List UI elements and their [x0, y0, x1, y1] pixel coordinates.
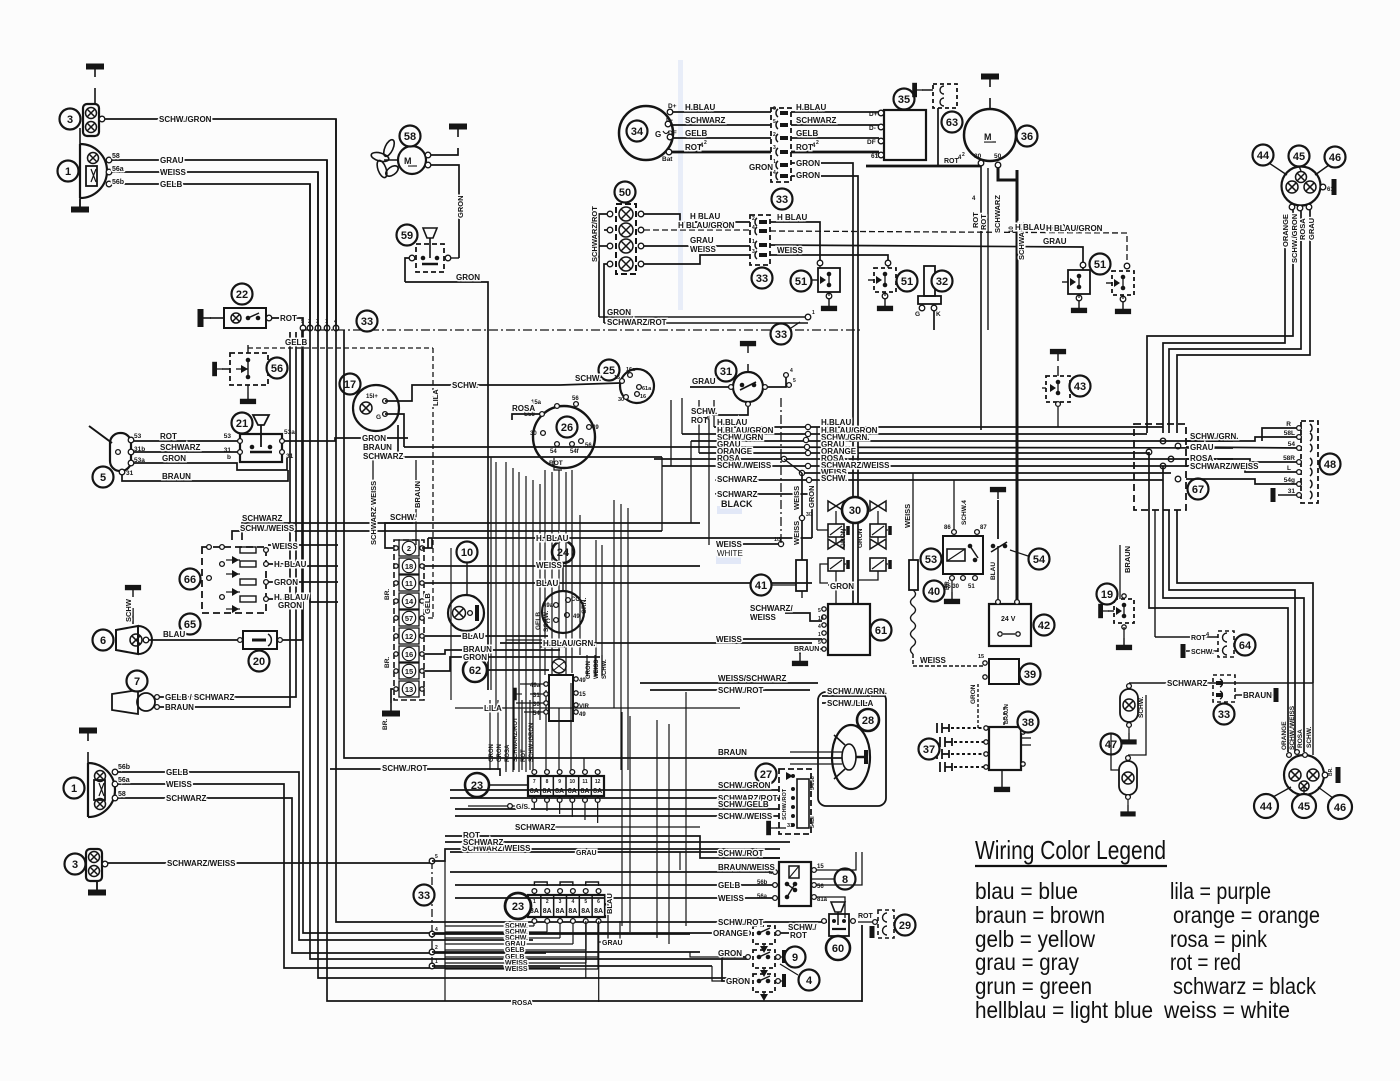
left riser comb for color bus [661, 457, 663, 531]
label circle 50 [615, 182, 636, 203]
svg-text:D-: D- [869, 125, 876, 132]
svg-text:SCHW.: SCHW. [1191, 649, 1214, 656]
horn 6 [116, 626, 138, 654]
svg-text:10: 10 [570, 779, 576, 785]
svg-text:8A: 8A [568, 908, 577, 915]
svg-text:BRAUN: BRAUN [1004, 704, 1010, 724]
valve block 30 [828, 501, 844, 511]
svg-text:SCHW./ROT: SCHW./ROT [718, 686, 763, 695]
heater fan motor 58 [398, 146, 426, 174]
SCHWARZ BLACK label wire [715, 493, 730, 495]
svg-text:ROT: ROT [1191, 635, 1207, 642]
vertical ROT 4-2 pair [987, 168, 989, 330]
svg-text:H. BLAU: H. BLAU [536, 534, 569, 543]
svg-text:51: 51 [795, 276, 807, 288]
label circle 48 [1320, 454, 1341, 475]
svg-text:WEISS: WEISS [505, 966, 528, 973]
svg-text:BRAUN: BRAUN [1243, 691, 1272, 700]
svg-text:rot = red: rot = red [1170, 949, 1241, 975]
lamp group 50 [616, 204, 636, 274]
svg-text:GRAU: GRAU [576, 850, 597, 857]
GRAU label mid [598, 921, 620, 942]
svg-text:BRAUN: BRAUN [718, 748, 747, 757]
wires right of conn 33 middle [770, 222, 820, 266]
starter motor 36 [964, 109, 1016, 161]
wires from dashdot junctions right [432, 933, 690, 935]
wire rows below lower fusebox [445, 925, 534, 927]
connector 63 [933, 84, 957, 108]
svg-text:58L: 58L [1284, 430, 1295, 437]
svg-text:6: 6 [773, 106, 776, 112]
svg-text:17: 17 [344, 379, 356, 391]
svg-text:SCHW./WEISS: SCHW./WEISS [240, 524, 295, 533]
svg-text:SCHW./ROT: SCHW./ROT [718, 918, 763, 927]
svg-text:GRON: GRON [162, 454, 186, 463]
wire thick to 42 [1016, 496, 1019, 604]
svg-text:19: 19 [1101, 589, 1113, 601]
label circle 51 right [1090, 254, 1111, 275]
wire BRAUN 17 to bus [404, 446, 686, 448]
svg-text:GRON: GRON [726, 977, 750, 986]
label circle 42 [1034, 615, 1055, 636]
svg-text:14: 14 [405, 597, 414, 606]
wire GRON1 right going down [791, 163, 853, 604]
control unit 61 [828, 604, 870, 655]
svg-text:SCHW./GRN.: SCHW./GRN. [1190, 432, 1238, 441]
wire BRAUN from 7 [160, 332, 290, 707]
label circle 41 [751, 575, 772, 596]
label circle 23 lower [505, 893, 531, 919]
GRON dashed below 39 [977, 684, 979, 710]
svg-text:58R: 58R [1283, 455, 1295, 462]
svg-text:G/S.: G/S. [516, 804, 530, 811]
27 ground 31 [776, 827, 786, 829]
svg-text:11: 11 [405, 579, 413, 588]
svg-text:BR.: BR. [384, 657, 391, 668]
svg-text:18: 18 [405, 562, 413, 571]
svg-text:LILA: LILA [484, 704, 502, 713]
connector 33 upper [771, 108, 791, 182]
instrument lamp 17 [353, 385, 399, 431]
svg-text:36: 36 [1021, 131, 1033, 143]
svg-text:63: 63 [946, 117, 958, 129]
coil under 40 [911, 590, 916, 654]
strip left wiring SCHW [385, 523, 413, 548]
label circle 20 [249, 651, 270, 672]
svg-text:1: 1 [65, 166, 71, 178]
label circle 33 under connector [772, 189, 793, 210]
relay 53 [943, 536, 983, 574]
svg-text:D-: D- [666, 117, 673, 124]
svg-text:H.BLAU: H.BLAU [796, 103, 826, 112]
svg-text:BRAUN: BRAUN [363, 443, 392, 452]
svg-text:16: 16 [640, 394, 646, 400]
svg-text:WEISS: WEISS [536, 561, 562, 570]
wire 62 to ignition block [487, 669, 549, 671]
svg-text:31: 31 [286, 453, 294, 460]
relay 51 right [874, 268, 896, 292]
svg-text:10: 10 [818, 616, 824, 622]
wire SCHWARZ 17 to bus [398, 456, 662, 458]
svg-text:31: 31 [533, 693, 540, 699]
wire SCHW./ROT [650, 689, 810, 691]
svg-text:31: 31 [126, 470, 134, 477]
wire SCHW./ROT from switch [781, 922, 818, 933]
junction row under 22 [300, 325, 306, 331]
svg-text:31b: 31b [134, 446, 145, 453]
label circle 19 [1097, 584, 1118, 605]
steering wheel assembly 28 [818, 692, 886, 806]
label circle 33 on bus [357, 311, 378, 332]
svg-text:SCHW./GRON: SCHW./GRON [159, 115, 212, 124]
48 pin 54g wire [1186, 479, 1298, 484]
svg-text:2: 2 [546, 899, 549, 905]
svg-text:1/3: 1/3 [774, 537, 781, 543]
svg-text:schwarz = black: schwarz = black [1173, 973, 1316, 999]
48 pin 31 ground [1278, 494, 1298, 496]
svg-text:1: 1 [752, 239, 755, 245]
svg-text:3: 3 [773, 145, 776, 151]
svg-text:SCHW./WEISS: SCHW./WEISS [718, 812, 773, 821]
svg-text:12: 12 [405, 632, 413, 641]
ROSA wire from 26 [512, 414, 540, 420]
svg-text:BRAUN: BRAUN [413, 481, 422, 508]
svg-text:4: 4 [790, 368, 793, 374]
GRAU row mid fuse [576, 852, 680, 870]
svg-text:GRON: GRON [362, 434, 386, 443]
label circles 44 45 46 top [1253, 145, 1274, 166]
wire BRAUN from 5 [122, 470, 288, 481]
svg-text:53a: 53a [284, 429, 295, 436]
svg-text:GELB: GELB [796, 129, 818, 138]
svg-text:ROT: ROT [796, 143, 813, 152]
svg-text:54: 54 [1288, 441, 1296, 448]
svg-text:H BLAU: H BLAU [690, 212, 720, 221]
svg-text:H BLAU/GRON: H BLAU/GRON [678, 221, 735, 230]
svg-text:56: 56 [585, 443, 592, 449]
svg-text:42: 42 [1038, 620, 1050, 632]
wire WEISS to 61 [716, 638, 822, 640]
svg-text:87: 87 [980, 525, 987, 531]
svg-text:D+: D+ [869, 111, 878, 118]
wire from 20 right [283, 330, 302, 640]
svg-text:1: 1 [435, 959, 438, 965]
svg-text:GRAU: GRAU [692, 377, 716, 386]
svg-text:1: 1 [71, 783, 77, 795]
svg-text:GRON: GRON [840, 528, 847, 548]
svg-text:56b: 56b [112, 179, 124, 186]
svg-text:3: 3 [72, 859, 78, 871]
svg-text:SCHWARZ: SCHWARZ [166, 794, 207, 803]
svg-text:WEISS/SCHWARZ: WEISS/SCHWARZ [718, 674, 787, 683]
wires to 8 [450, 871, 772, 873]
svg-text:31: 31 [787, 823, 793, 829]
svg-text:30: 30 [618, 397, 624, 403]
wire GELB/SCHWARZ from 7 [160, 332, 296, 697]
svg-text:13: 13 [405, 685, 413, 694]
label circle 33 below middle connector [752, 268, 773, 289]
alternator terminals [667, 109, 673, 115]
tail lamp cluster bottom [1284, 755, 1324, 795]
svg-text:31: 31 [224, 447, 232, 454]
resistor 41 [796, 560, 807, 591]
svg-text:WEISS: WEISS [792, 486, 801, 510]
wire H.BLAU 34 to conn33 [673, 111, 771, 113]
svg-text:GELB: GELB [160, 180, 182, 189]
center-bottom long verticals [621, 712, 623, 926]
label circle 33 mid [771, 324, 792, 345]
svg-text:SCHWARZ: SCHWARZ [242, 514, 283, 523]
wire GRON2 right going down [791, 176, 858, 604]
svg-text:GRON: GRON [749, 163, 773, 172]
wire BLAU horn to 20 [149, 639, 243, 641]
svg-text:grun = green: grun = green [975, 973, 1092, 999]
wire BRAUN from 33r [1235, 694, 1273, 696]
svg-text:4: 4 [752, 225, 755, 231]
svg-text:WHITE: WHITE [717, 549, 743, 558]
thick vertical from starter 30 [980, 166, 982, 430]
license plate lamps 47 [1120, 689, 1138, 722]
ignition block 23-area upper [549, 675, 573, 721]
dash-dot bus 33 horizontal [302, 329, 862, 331]
label circle 51 mid [897, 271, 918, 292]
turn signal switch 27 [779, 769, 811, 834]
svg-text:WEISS: WEISS [594, 660, 600, 679]
svg-text:56a: 56a [112, 166, 124, 173]
wire SCHWARZ row [445, 841, 790, 843]
svg-text:GELB: GELB [535, 612, 542, 630]
relay 51 left [818, 268, 840, 292]
svg-text:30: 30 [530, 431, 537, 437]
svg-text:SCHW./LILA: SCHW./LILA [827, 699, 873, 708]
svg-text:8A: 8A [555, 788, 564, 795]
svg-text:DF: DF [668, 130, 677, 137]
svg-text:R: R [1286, 421, 1291, 428]
svg-text:SCHW./GRON: SCHW./GRON [718, 781, 771, 790]
svg-text:SCHWARZ/ROT: SCHWARZ/ROT [607, 318, 667, 327]
wire ROT 34 to conn33 (thick) [672, 151, 771, 154]
verticals under ignition switch 26 [544, 470, 546, 675]
diagonals bottom [1273, 787, 1291, 797]
svg-text:WEISS: WEISS [750, 613, 776, 622]
svg-text:58: 58 [404, 131, 416, 143]
svg-text:hellblau = light blue: hellblau = light blue [975, 997, 1153, 1023]
svg-text:GRON: GRON [489, 744, 495, 762]
wire GRON fan to switch 59 [431, 165, 459, 258]
svg-text:5: 5 [818, 608, 821, 614]
legend entries [975, 878, 1320, 1023]
label circle 47 [1101, 734, 1122, 755]
wire WEISS [112, 172, 318, 330]
wire BRAUN to wheel [690, 757, 842, 759]
BRAUN row y650 [425, 650, 560, 654]
svg-text:WEISS: WEISS [792, 521, 801, 545]
wire SCHWARZ/WEISS to 8 rows [432, 849, 780, 861]
svg-text:GRON: GRON [607, 308, 631, 317]
label circle 22 [232, 284, 253, 305]
svg-text:51: 51 [1094, 259, 1106, 271]
svg-text:58: 58 [118, 791, 126, 798]
door switch 9 [753, 950, 775, 968]
svg-text:DF: DF [867, 139, 876, 146]
svg-text:64: 64 [1239, 640, 1252, 652]
svg-text:3: 3 [559, 899, 562, 905]
diagonals to cluster [1269, 163, 1287, 175]
WEISS WHITE label wire [737, 543, 781, 545]
svg-text:21: 21 [236, 418, 248, 430]
label circle 51 left [791, 271, 812, 292]
svg-text:LILA: LILA [431, 389, 440, 406]
svg-text:SCHWARZ: SCHWARZ [515, 823, 556, 832]
svg-text:33: 33 [418, 890, 430, 902]
svg-text:SCHWARZ/: SCHWARZ/ [750, 604, 793, 613]
wire WEISS lower [118, 784, 560, 968]
svg-text:BRAUN: BRAUN [162, 472, 191, 481]
color bus rows [714, 426, 1163, 428]
valve 19 [1114, 599, 1134, 623]
label circle 40 [924, 581, 945, 602]
battery 24V 42 [989, 604, 1031, 646]
svg-text:G: G [376, 414, 381, 421]
svg-text:61: 61 [1327, 187, 1334, 193]
svg-text:SCHWARZ: SCHWARZ [160, 443, 201, 452]
label circle 58 [400, 126, 421, 147]
wires right of 8 [817, 852, 856, 870]
svg-text:M: M [984, 132, 992, 142]
svg-text:45: 45 [1293, 151, 1305, 163]
svg-text:b: b [227, 454, 231, 461]
svg-text:GRON: GRON [796, 171, 820, 180]
label circle 61 [871, 620, 892, 641]
wire ROT to 29 [858, 921, 872, 923]
ignition coil 32 [924, 266, 935, 296]
svg-text:12: 12 [595, 779, 601, 785]
SCHW label right of strip wires [422, 538, 432, 548]
svg-text:4: 4 [571, 899, 574, 905]
label circle 30 [842, 497, 868, 523]
wires valves to 61 [835, 571, 837, 604]
dash-dot 33 vertical left [431, 861, 433, 966]
dip switch 21 [240, 434, 282, 462]
svg-text:GELB / SCHWARZ: GELB / SCHWARZ [165, 693, 234, 702]
wire GELB dashed to 57 [425, 617, 433, 619]
svg-text:SCHWARZ/WEISS: SCHWARZ/WEISS [167, 859, 236, 868]
svg-text:BRAUN/WEISS: BRAUN/WEISS [718, 863, 776, 872]
svg-text:L: L [1287, 465, 1291, 472]
label circle 33 left lower [414, 885, 435, 906]
mid vertical bundle [310, 184, 748, 959]
svg-text:BLAU: BLAU [462, 632, 484, 641]
svg-text:ROSA: ROSA [1298, 218, 1307, 240]
svg-text:30: 30 [849, 505, 861, 517]
svg-text:7: 7 [533, 779, 536, 785]
svg-text:15l+: 15l+ [366, 394, 378, 400]
svg-text:56: 56 [817, 884, 824, 890]
svg-text:GRAU: GRAU [1307, 218, 1316, 240]
svg-text:8A: 8A [556, 908, 565, 915]
svg-text:SCHW.: SCHW. [602, 659, 608, 679]
svg-text:33: 33 [361, 316, 373, 328]
svg-text:SCHWARZ WEISS: SCHWARZ WEISS [369, 481, 378, 545]
svg-text:1: 1 [818, 632, 821, 638]
svg-text:2: 2 [308, 319, 311, 325]
label circle 29 [895, 915, 916, 936]
thick ROT rail y166 [866, 165, 981, 168]
tail lamp cluster right top [1282, 167, 1321, 206]
dashed vertical GELB/LILA x433 [432, 348, 434, 618]
svg-text:10: 10 [461, 547, 473, 559]
svg-text:54: 54 [533, 711, 540, 717]
label circle 59 [397, 225, 418, 246]
svg-text:ORANGE: ORANGE [713, 929, 749, 938]
svg-text:GELB: GELB [166, 768, 188, 777]
svg-text:40: 40 [928, 586, 940, 598]
svg-text:ROT: ROT [160, 432, 177, 441]
wire SCHW/ROT row to 8 [450, 852, 780, 858]
switch 54 [997, 500, 999, 539]
diode block 56 [230, 353, 268, 385]
hand brake switch 60 [831, 902, 845, 912]
gauge 24 [552, 541, 574, 563]
svg-text:SCHW./ROT: SCHW./ROT [782, 788, 788, 820]
svg-text:GRON: GRON [807, 486, 816, 509]
wire SCHWARZ/WEISS to 61 [785, 613, 822, 621]
GRON label under valves [828, 584, 855, 586]
svg-text:56b: 56b [118, 764, 130, 771]
labels on verticals bottom [1312, 683, 1314, 755]
svg-text:BR.: BR. [382, 719, 389, 730]
svg-text:2: 2 [752, 216, 755, 222]
svg-text:SCHWARZ/WEISS: SCHWARZ/WEISS [1190, 462, 1259, 471]
svg-text:CO: CO [571, 597, 580, 603]
turn signal lever 7 [112, 690, 138, 714]
svg-text:61: 61 [871, 153, 879, 160]
svg-text:GELB: GELB [423, 593, 432, 614]
53 ground BR [951, 581, 953, 592]
svg-text:BLACK: BLACK [721, 499, 753, 509]
valve block wiring [817, 529, 828, 531]
label circle 5 [93, 467, 114, 488]
svg-text:SCHW./GELB: SCHW./GELB [718, 800, 769, 809]
svg-text:WEISS: WEISS [716, 540, 742, 549]
wires 67 to 48 [1186, 437, 1298, 441]
svg-text:WEISS: WEISS [690, 245, 716, 254]
svg-text:K: K [936, 311, 941, 318]
svg-text:grau = gray: grau = gray [975, 949, 1079, 975]
label circle 60 [826, 936, 850, 960]
thick vertical SCHWARZ 10-2 [1016, 170, 1019, 496]
svg-text:Bat: Bat [662, 156, 673, 163]
svg-text:SCHW.: SCHW. [575, 374, 601, 383]
svg-text:WEISS: WEISS [718, 894, 744, 903]
relay pair 51 far right [1068, 270, 1090, 294]
label circle 62 [463, 658, 487, 682]
svg-text:39: 39 [1024, 669, 1036, 681]
svg-text:23: 23 [512, 901, 524, 913]
svg-text:BR.: BR. [945, 579, 951, 590]
warning lamp 10 [457, 542, 478, 563]
wire SCHW./GRON from unit 3 [105, 119, 336, 330]
connector 64 [1155, 636, 1218, 638]
svg-text:WEISS: WEISS [166, 780, 192, 789]
parking lamp unit 3 lower [86, 849, 102, 881]
svg-text:SCHWARZ: SCHWARZ [463, 838, 504, 847]
WEISS vertical to resistor 41 [801, 473, 803, 560]
svg-text:ORANGE: ORANGE [1281, 214, 1290, 247]
label circle 63 [942, 112, 963, 133]
voltage regulator 35 [884, 110, 926, 160]
svg-text:1: 1 [533, 899, 536, 905]
